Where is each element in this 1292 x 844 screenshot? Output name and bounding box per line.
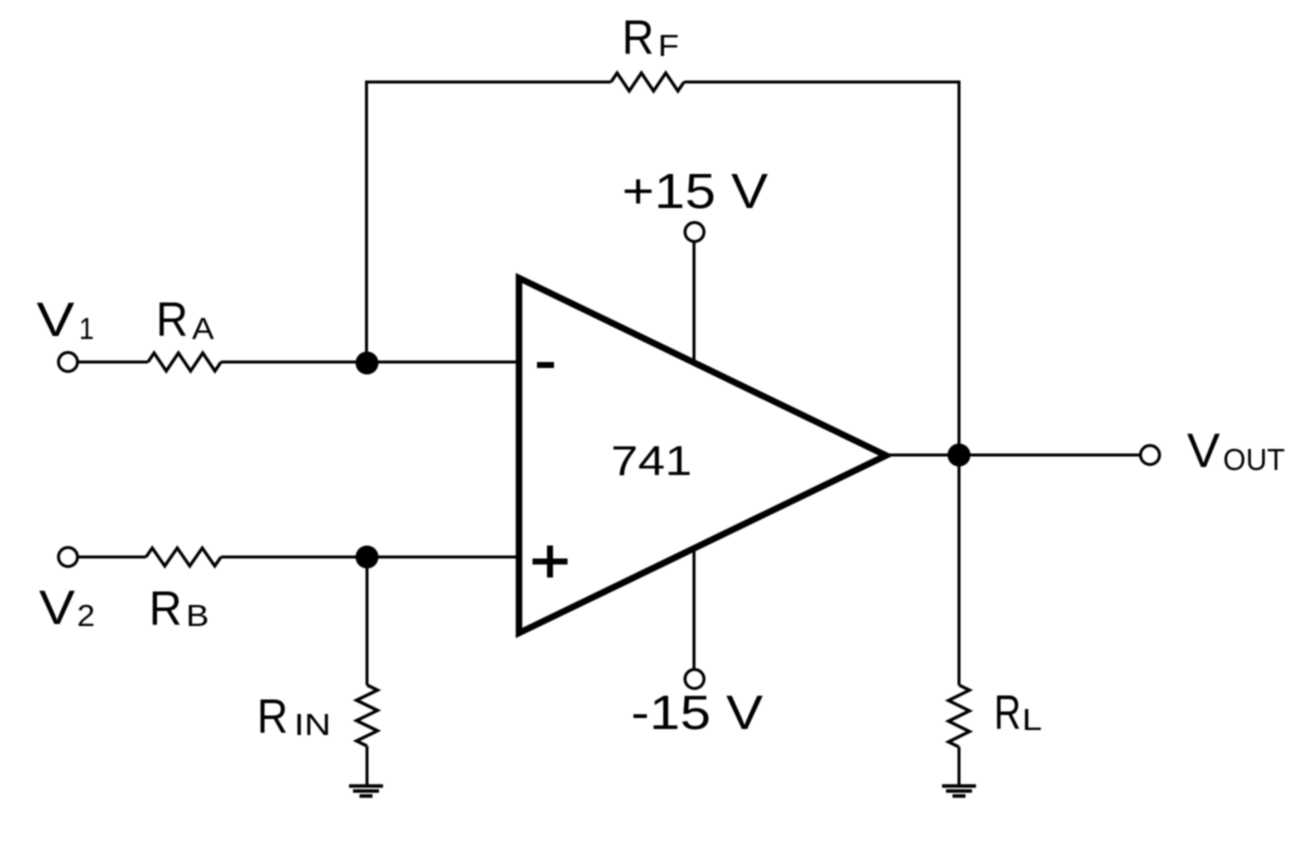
svg-text:R: R [622,12,654,65]
svg-text:V: V [37,294,75,347]
svg-text:R: R [257,691,288,744]
svg-text:1: 1 [79,311,94,346]
svg-text:V: V [39,582,75,635]
svg-text:V: V [1187,425,1220,478]
svg-text:R: R [156,294,188,347]
svg-text:-15 V: -15 V [631,687,763,740]
svg-text:F: F [658,28,679,63]
svg-text:+15 V: +15 V [622,165,768,219]
svg-text:IN: IN [294,707,331,742]
svg-text:741: 741 [611,437,692,484]
svg-text:B: B [186,598,209,633]
svg-text:L: L [1022,702,1042,737]
svg-text:R: R [149,583,182,636]
svg-text:2: 2 [77,598,95,633]
svg-text:R: R [994,687,1021,740]
svg-text:OUT: OUT [1223,442,1285,477]
svg-text:A: A [192,311,214,346]
